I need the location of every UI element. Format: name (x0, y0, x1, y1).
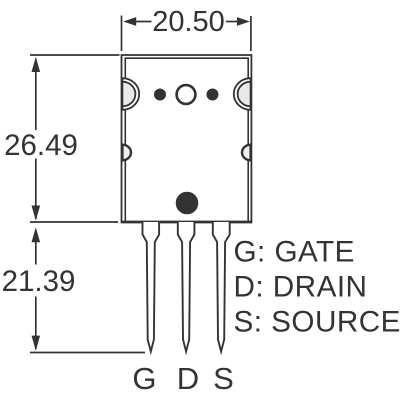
package body inner outline (125, 58, 248, 222)
right index dot (207, 89, 219, 101)
lead G (143, 222, 160, 352)
svg-text:G: GATE: G: GATE (234, 236, 355, 269)
dimension 20.50 extension line left (121, 16, 123, 52)
dimension 26.49 line lower with arrow (32, 159, 41, 221)
dimension 26.49 top extension line (30, 54, 120, 56)
left small notch (122, 145, 131, 161)
bottom locator dot (176, 192, 199, 215)
svg-text:26.49: 26.49 (4, 129, 78, 162)
dimension 26.49 line upper with arrow (32, 57, 41, 130)
dimension 20.50 line right with arrow (226, 17, 250, 26)
left index dot (154, 89, 166, 101)
svg-text:G: G (132, 361, 156, 396)
svg-text:S: SOURCE: S: SOURCE (234, 306, 400, 339)
svg-text:S: S (213, 361, 234, 396)
left large notch (122, 78, 139, 110)
lead S (213, 222, 230, 352)
dimension 21.39 line lower with arrow (32, 297, 41, 351)
right small notch (242, 145, 251, 161)
lead D (178, 222, 195, 352)
package body bottom edge (121, 221, 253, 224)
svg-text:20.50: 20.50 (152, 6, 225, 38)
svg-text:D: D (177, 361, 199, 396)
right large notch (234, 78, 251, 110)
dimension 20.50 line left with arrow (123, 17, 151, 26)
svg-text:21.39: 21.39 (2, 265, 76, 298)
mounting hole (177, 85, 196, 104)
dimension 26.49 bottom extension line (30, 221, 118, 223)
dimension 20.50 extension line right (250, 16, 252, 51)
package body outer outline (122, 55, 252, 222)
dimension 21.39 bottom extension line (30, 352, 145, 354)
dimension 21.39 line upper with arrow (32, 227, 41, 264)
svg-text:D: DRAIN: D: DRAIN (234, 271, 368, 304)
